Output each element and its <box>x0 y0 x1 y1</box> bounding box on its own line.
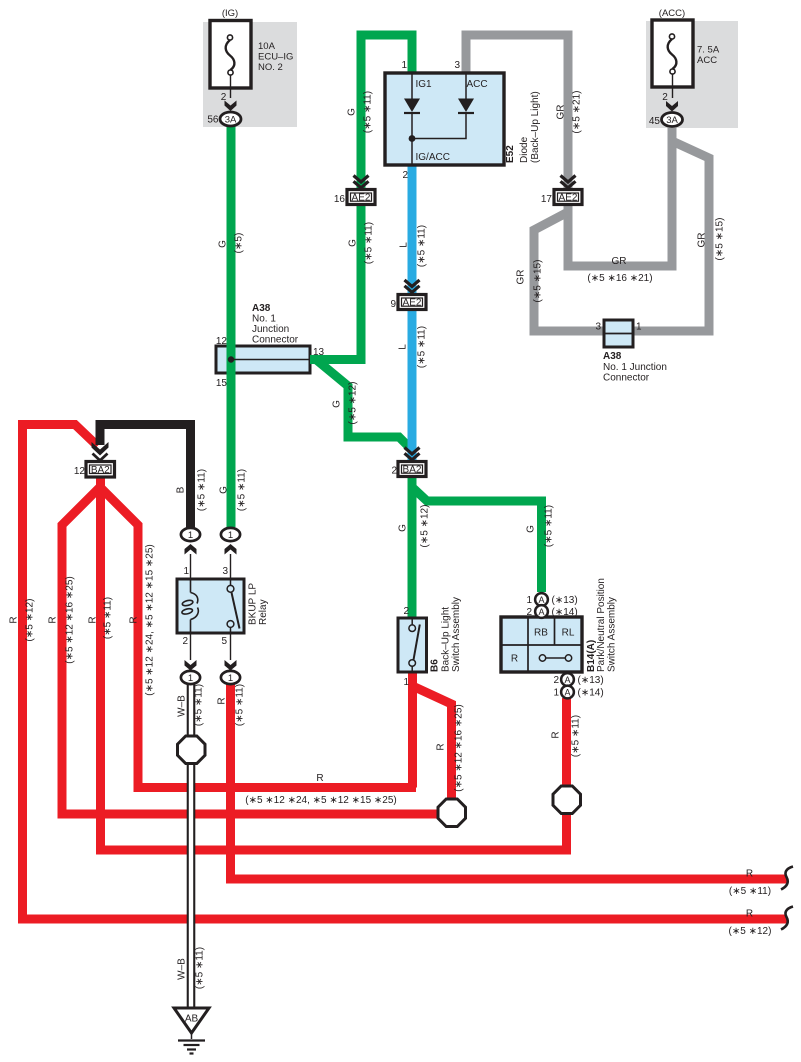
svg-text:B6: B6 <box>430 659 441 672</box>
svg-text:R: R <box>129 616 140 623</box>
svg-text:No. 1: No. 1 <box>252 314 276 325</box>
svg-text:(∗5 ∗11): (∗5 ∗11) <box>417 326 428 368</box>
svg-text:(∗5 ∗16 ∗21): (∗5 ∗16 ∗21) <box>587 273 652 284</box>
harness arrows above BA2 2 <box>405 448 420 460</box>
svg-text:(∗5 ∗11): (∗5 ∗11) <box>729 886 771 897</box>
svg-text:(∗5 ∗11): (∗5 ∗11) <box>237 469 248 511</box>
svg-text:BKUP LP: BKUP LP <box>248 583 259 625</box>
svg-text:G: G <box>332 400 343 408</box>
connector oval 3A pin 45 <box>662 113 683 127</box>
svg-text:R: R <box>9 616 20 623</box>
park/neutral position switch B14(A) body <box>501 617 582 672</box>
wire G from diode E52 pin 1 over and down to AE2 16 <box>361 35 412 191</box>
B14 grid divider vertical right (top row) <box>554 617 556 645</box>
wire G diagonal from A38 pin 13 junction down to BA2 2 <box>316 360 412 451</box>
svg-text:A: A <box>564 675 570 685</box>
diode E52 IG1 element <box>404 73 420 165</box>
wire GR from diode E52 pin 3 up and over to AE2 17 <box>466 35 568 191</box>
svg-text:1: 1 <box>553 688 559 699</box>
fuse 10A ECU-IG NO.2 body <box>210 21 251 89</box>
relay pin 3 lead <box>230 554 232 579</box>
svg-text:Relay: Relay <box>258 599 269 625</box>
svg-text:RB: RB <box>534 628 548 639</box>
svg-text:(∗13): (∗13) <box>578 675 604 686</box>
svg-text:NO. 2: NO. 2 <box>258 62 283 73</box>
svg-text:(∗13): (∗13) <box>552 595 578 606</box>
svg-text:Switch Assembly: Switch Assembly <box>607 597 618 672</box>
svg-text:9: 9 <box>390 299 396 310</box>
svg-text:Connector: Connector <box>252 335 299 346</box>
svg-text:(∗5 ∗21): (∗5 ∗21) <box>572 91 583 134</box>
svg-text:R: R <box>48 616 59 623</box>
wire G from AE2 16 down to A38 pin 13 junction <box>357 204 366 364</box>
svg-text:1: 1 <box>401 60 407 71</box>
svg-text:3: 3 <box>595 322 601 333</box>
connector arrow into relay pin 1 oval <box>185 544 197 555</box>
diode E52 ACC element <box>412 73 474 139</box>
connector oval 1 above relay pin 1 <box>181 528 200 541</box>
svg-text:(∗5 ∗11): (∗5 ∗11) <box>103 597 114 639</box>
connector BA2 2 <box>398 462 426 477</box>
svg-text:No. 1 Junction: No. 1 Junction <box>603 362 667 373</box>
svg-text:ECU–IG: ECU–IG <box>258 52 293 63</box>
svg-text:GR: GR <box>697 233 708 248</box>
svg-text:(∗5 ∗11): (∗5 ∗11) <box>417 225 428 267</box>
svg-text:G: G <box>348 239 359 247</box>
connector oval 1 below relay pin 5 <box>221 671 240 684</box>
svg-text:(ACC): (ACC) <box>659 8 685 19</box>
svg-text:AB: AB <box>185 1014 199 1025</box>
svg-text:(∗5 ∗11): (∗5 ∗11) <box>571 715 582 757</box>
wire L from AE2 9 down to BA2 2 <box>408 309 417 463</box>
svg-text:(∗5 ∗15): (∗5 ∗15) <box>533 260 544 303</box>
svg-text:3: 3 <box>454 60 460 71</box>
connector arrow from ACC fuse pin 2 <box>666 101 678 112</box>
relay coil element <box>181 579 198 633</box>
svg-text:A: A <box>538 607 544 617</box>
svg-text:G: G <box>526 525 537 533</box>
connector circle A pin 2 (*13) below B14 <box>561 673 574 686</box>
svg-text:(∗5 ∗12 ∗24, ∗5 ∗12 ∗15 ∗25): (∗5 ∗12 ∗24, ∗5 ∗12 ∗15 ∗25) <box>145 544 156 696</box>
wire W-B white core <box>189 684 193 1008</box>
svg-text:A38: A38 <box>252 303 271 314</box>
svg-text:GR: GR <box>612 256 627 267</box>
svg-text:ACC: ACC <box>697 55 717 66</box>
svg-text:G: G <box>218 240 229 248</box>
wire R from BA2 12 horizontal run and far-left drop to long feed (*5 *12) <box>23 425 788 920</box>
svg-text:Back–Up Light: Back–Up Light <box>441 607 452 672</box>
relay pin 5 lead <box>230 633 232 660</box>
svg-text:AE2: AE2 <box>559 193 578 204</box>
svg-text:GR: GR <box>556 105 567 120</box>
svg-text:IG1: IG1 <box>416 79 433 90</box>
svg-text:(∗5 ∗11): (∗5 ∗11) <box>195 947 206 989</box>
wire GR right branch from ACC 3A down to A38 pin 1 <box>620 141 709 331</box>
svg-text:(∗5 ∗11): (∗5 ∗11) <box>544 505 555 547</box>
svg-text:Switch Assembly: Switch Assembly <box>451 597 462 672</box>
svg-text:A: A <box>564 687 570 697</box>
fuse block background (ACC) <box>646 21 738 128</box>
svg-text:W–B: W–B <box>177 958 188 980</box>
harness arrows above AE2 9 <box>405 280 420 292</box>
connector oval 1 above relay pin 3 <box>221 528 240 541</box>
svg-text:G: G <box>347 108 358 116</box>
svg-text:(∗5 ∗11): (∗5 ∗11) <box>235 684 246 726</box>
wire GR left branch from AE2 17 down to A38 pin 3 <box>534 212 618 331</box>
connector AE2 9 <box>398 295 426 310</box>
svg-text:BA2: BA2 <box>403 465 422 476</box>
svg-text:(∗14): (∗14) <box>552 607 578 618</box>
svg-text:IG/ACC: IG/ACC <box>416 152 450 163</box>
svg-text:AE2: AE2 <box>352 193 371 204</box>
svg-text:1: 1 <box>403 677 409 688</box>
splice octagon on R wire below B14 <box>553 786 581 814</box>
svg-text:(∗5 ∗12): (∗5 ∗12) <box>729 926 772 937</box>
svg-text:2: 2 <box>403 606 409 617</box>
ground hatching <box>178 1041 205 1054</box>
ground stem <box>191 1033 193 1039</box>
connector oval 3A pin 56 <box>220 112 241 126</box>
svg-text:B: B <box>176 486 187 493</box>
BKUP LP relay body <box>177 579 244 633</box>
wire G from IG fuse 3A through A38 pin 12/15 down to BKUP LP relay connector <box>227 126 236 527</box>
svg-text:R: R <box>511 654 518 665</box>
svg-text:(∗5 ∗12): (∗5 ∗12) <box>25 599 36 642</box>
junction connector A38 (left) internal bar to pin 13 <box>231 359 310 361</box>
svg-text:1: 1 <box>188 673 193 684</box>
svg-text:(∗5): (∗5) <box>234 233 245 254</box>
back-up light switch B6 body <box>398 618 427 672</box>
connector arrow below relay pin 2 <box>185 660 197 671</box>
wire L from diode E52 pin 2 down to AE2 9 <box>408 165 417 296</box>
svg-text:BA2: BA2 <box>91 465 110 476</box>
fuse element (ACC) <box>668 34 677 98</box>
svg-text:(∗5 ∗11): (∗5 ∗11) <box>194 684 205 726</box>
svg-text:1: 1 <box>228 673 233 684</box>
svg-text:L: L <box>398 344 409 350</box>
svg-text:AE2: AE2 <box>403 298 422 309</box>
fuse element (IG) <box>226 35 235 98</box>
wire R from BA2 12 straight down (*5 *11) to splice line of B14 <box>101 476 567 850</box>
harness arrows above BA2 12 <box>92 442 109 456</box>
wire G from A38 pin 13 to junction with AE2-16 wire <box>310 355 361 364</box>
svg-text:12: 12 <box>74 466 86 477</box>
svg-text:(IG): (IG) <box>222 8 238 19</box>
svg-text:(Back–Up Light): (Back–Up Light) <box>530 91 541 163</box>
connector arrow from IG fuse pin 2 <box>225 101 237 112</box>
svg-text:3A: 3A <box>666 115 678 126</box>
diode E52 body <box>385 73 504 165</box>
splice octagon on R wire below B6 <box>438 799 466 827</box>
svg-text:2: 2 <box>391 466 397 477</box>
B14 reverse contact element <box>539 655 571 661</box>
svg-text:2: 2 <box>221 92 227 103</box>
wire R from BA2 12 left split down (*5 *12 *16 *25) to splice below B6 <box>62 487 437 814</box>
harness arrows above AE2 16 <box>354 176 369 188</box>
fuse 7.5A ACC body <box>652 20 693 87</box>
connector circle A pin 1 (*14) below B14 <box>561 686 574 699</box>
svg-text:(∗5 ∗11): (∗5 ∗11) <box>197 469 208 511</box>
wire GR from AE2 17 down to junction and right to ACC fuse 3A <box>568 128 672 266</box>
svg-text:R: R <box>436 743 447 750</box>
svg-text:3: 3 <box>222 566 228 577</box>
svg-text:(∗5 ∗12 ∗16 ∗25): (∗5 ∗12 ∗16 ∗25) <box>65 576 76 663</box>
wire G branch to park/neutral position switch B14 <box>412 487 542 592</box>
svg-text:Park/Neutral Position: Park/Neutral Position <box>596 578 607 672</box>
wire R from B6 pin 1 down to junction <box>408 672 417 788</box>
svg-text:E52: E52 <box>505 145 516 163</box>
relay pin 2 lead <box>190 633 192 660</box>
connector oval 1 below relay pin 2 <box>181 671 200 684</box>
B14 grid divider vertical left <box>527 617 529 672</box>
svg-text:2: 2 <box>662 92 668 103</box>
wire R from B14 connector 1 down through splice octagon <box>562 698 571 850</box>
wire B from BA2 12 over to BKUP LP relay pin 1 connector <box>100 425 191 530</box>
ground AB triangle <box>174 1008 209 1033</box>
B6 switch element <box>409 618 420 672</box>
svg-text:45: 45 <box>649 116 661 127</box>
svg-text:16: 16 <box>334 194 346 205</box>
svg-text:G: G <box>219 486 230 494</box>
connector circle A pin 1 (*13) above B14 <box>535 593 548 606</box>
svg-text:5: 5 <box>221 636 227 647</box>
svg-text:Diode: Diode <box>519 136 530 163</box>
svg-text:G: G <box>398 524 409 532</box>
svg-text:(∗5 ∗11): (∗5 ∗11) <box>363 91 374 133</box>
svg-text:R: R <box>316 773 323 784</box>
svg-text:ACC: ACC <box>467 79 488 90</box>
wire R branch from B6 pin 1 to splice octagon <box>413 686 452 801</box>
svg-text:R: R <box>217 697 228 704</box>
connector arrow into relay pin 3 oval <box>225 544 237 555</box>
svg-text:13: 13 <box>313 347 325 358</box>
harness arrows above AE2 17 <box>561 176 576 188</box>
svg-text:(∗5 ∗12 ∗24, ∗5 ∗12 ∗15 ∗25): (∗5 ∗12 ∗24, ∗5 ∗12 ∗15 ∗25) <box>245 795 397 806</box>
svg-text:2: 2 <box>182 636 188 647</box>
svg-text:1: 1 <box>188 530 193 541</box>
svg-text:10A: 10A <box>258 41 276 52</box>
connector arrow below relay pin 5 <box>225 660 237 671</box>
svg-text:R: R <box>746 869 753 880</box>
connector AE2 17 <box>554 190 582 205</box>
svg-text:GR: GR <box>516 270 527 285</box>
svg-text:RL: RL <box>562 628 575 639</box>
continuation mark on R (*5 *11) feed <box>781 867 793 890</box>
svg-text:A38: A38 <box>603 351 622 362</box>
diode E52 internal junction dot <box>409 135 416 142</box>
wire G from BA2 2 down to back-up light switch B6 pin 2 <box>408 477 417 619</box>
svg-text:R: R <box>746 909 753 920</box>
wire R from relay connector 5 down and right to long feed (*5 *11) <box>231 684 788 879</box>
connector BA2 12 <box>86 462 115 478</box>
svg-text:3A: 3A <box>225 115 237 126</box>
connector AE2 16 <box>347 190 375 205</box>
svg-text:A: A <box>538 595 544 605</box>
B14 grid divider horizontal <box>501 644 582 646</box>
svg-text:1: 1 <box>183 566 189 577</box>
svg-text:(∗5 ∗12 ∗16 ∗25): (∗5 ∗12 ∗16 ∗25) <box>454 704 465 791</box>
connector circle A pin 2 (*14) above B14 <box>535 605 548 618</box>
svg-text:7. 5A: 7. 5A <box>697 45 720 56</box>
svg-text:Connector: Connector <box>603 373 650 384</box>
svg-text:R: R <box>551 731 562 738</box>
svg-text:W–B: W–B <box>177 695 188 717</box>
svg-text:(∗5 ∗12): (∗5 ∗12) <box>348 382 359 425</box>
svg-text:(∗5 ∗11): (∗5 ∗11) <box>364 222 375 264</box>
svg-text:2: 2 <box>553 675 559 686</box>
junction connector A38 (left) internal dot <box>228 356 234 362</box>
relay switch contact element <box>227 579 239 633</box>
svg-text:2: 2 <box>402 170 408 181</box>
svg-text:1: 1 <box>526 595 532 606</box>
svg-text:1: 1 <box>636 322 642 333</box>
continuation mark on R (*5 *12) feed <box>781 907 793 930</box>
wire W-B from relay connector 2 down to ground AB (outline) <box>187 684 196 1008</box>
svg-text:(∗5 ∗15): (∗5 ∗15) <box>715 218 726 261</box>
svg-text:1: 1 <box>228 530 233 541</box>
junction connector A38 (right) internal bar <box>604 333 633 335</box>
fuse block background (IG) <box>203 22 297 127</box>
svg-text:12: 12 <box>216 336 228 347</box>
svg-text:R: R <box>88 616 99 623</box>
wire R from BA2 12 right split down (*5 *12 *24) to B6 pin 1 <box>100 487 416 788</box>
splice octagon on W-B wire <box>178 736 206 764</box>
relay pin 1 lead <box>190 554 192 579</box>
junction connector A38 (right) body <box>604 320 633 347</box>
svg-text:(∗14): (∗14) <box>578 688 604 699</box>
junction connector A38 body (left, No.1 Junction Connector) <box>216 346 310 373</box>
svg-text:15: 15 <box>216 378 228 389</box>
svg-text:L: L <box>399 242 410 248</box>
svg-text:Junction: Junction <box>252 324 289 335</box>
svg-text:56: 56 <box>207 115 219 126</box>
svg-text:17: 17 <box>541 194 553 205</box>
svg-text:2: 2 <box>526 607 532 618</box>
svg-text:(∗5 ∗12): (∗5 ∗12) <box>420 505 431 548</box>
